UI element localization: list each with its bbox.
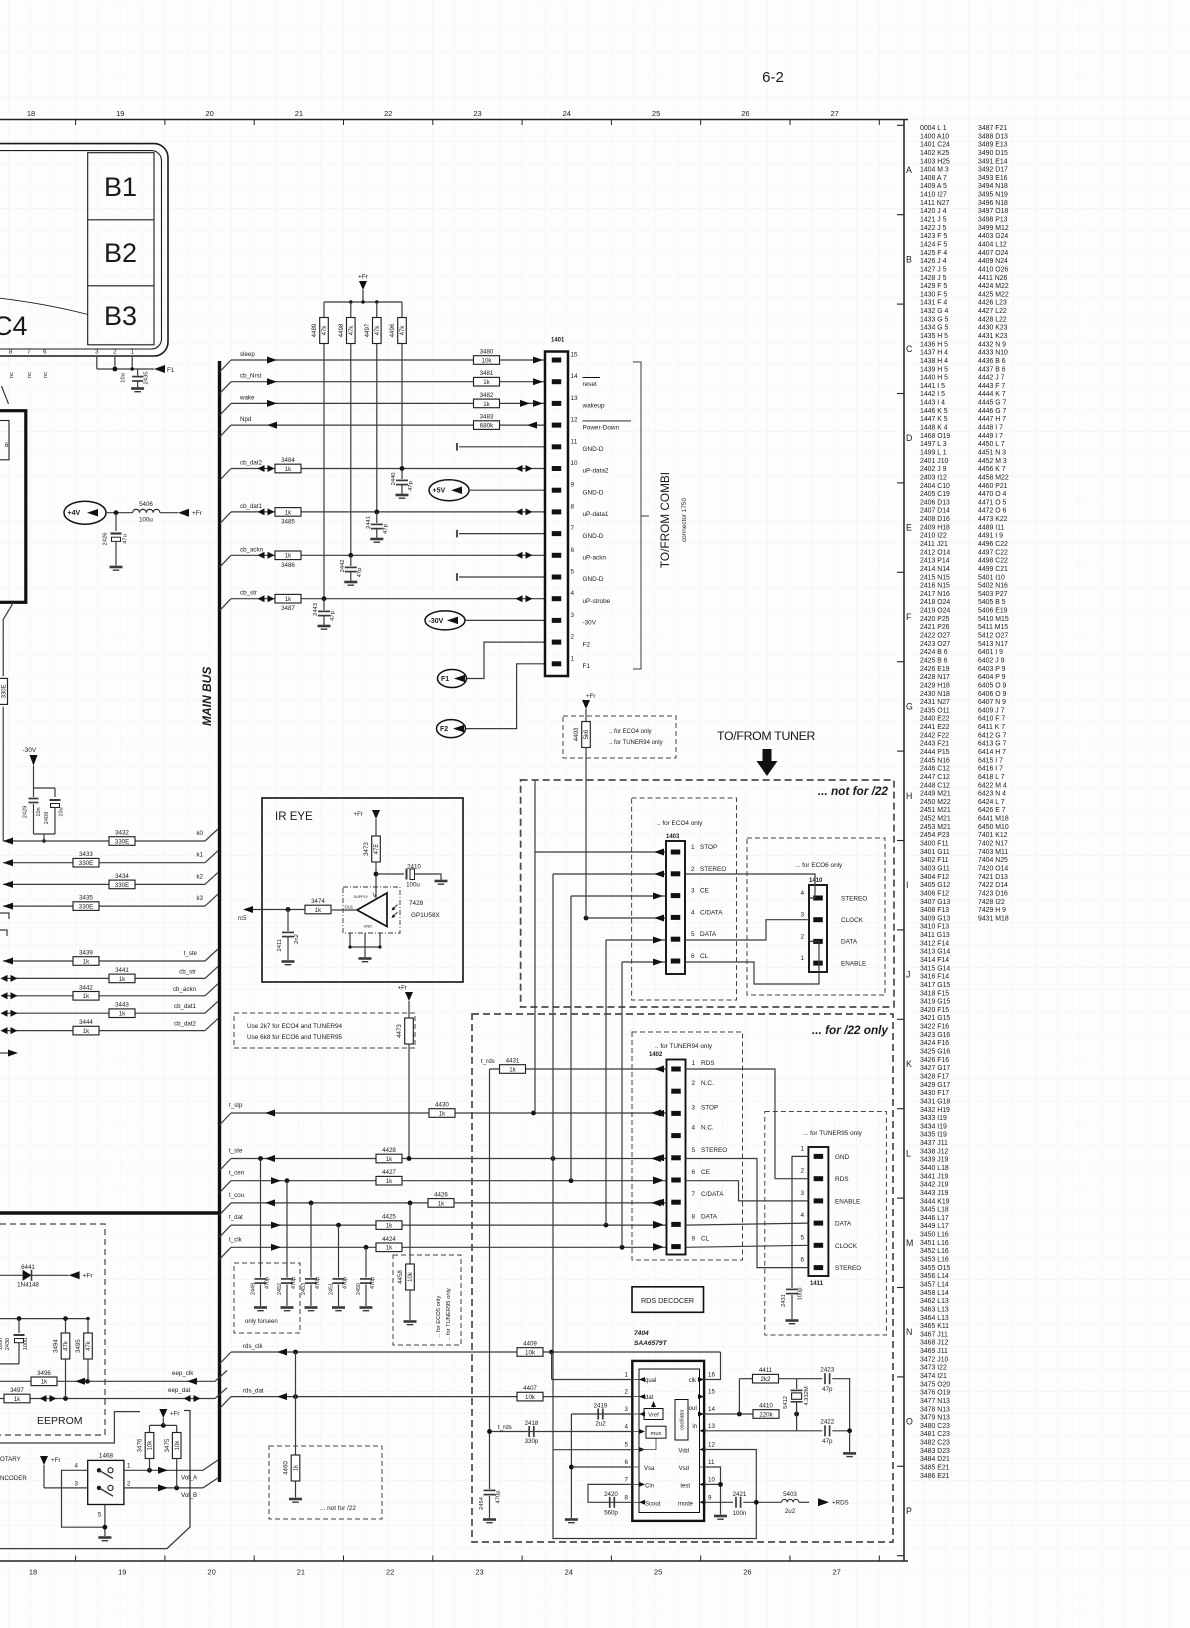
svg-text:7: 7 — [692, 1191, 696, 1198]
svg-text:C: C — [906, 344, 913, 354]
svg-text:3: 3 — [691, 888, 695, 895]
svg-text:1k: 1k — [83, 993, 90, 1000]
resistor 4427 1k — [376, 1176, 402, 1185]
k2 line — [3, 883, 205, 885]
svg-text:10u: 10u — [59, 807, 65, 816]
resistor 3442 1k — [73, 992, 99, 1001]
svg-text:out: out — [689, 1406, 698, 1412]
svg-text:3476: 3476 — [137, 1438, 144, 1452]
svg-text:Cin: Cin — [645, 1484, 654, 1490]
resistor 4407 10k — [517, 1392, 543, 1401]
svg-text:47k: 47k — [86, 1340, 92, 1351]
svg-text:GND: GND — [364, 925, 373, 929]
svg-text:F2: F2 — [440, 726, 448, 733]
svg-text:F2: F2 — [583, 641, 591, 648]
left module box — [0, 411, 26, 603]
svg-text:Vsa: Vsa — [644, 1466, 655, 1472]
svg-text:5: 5 — [625, 1442, 629, 1449]
wire +4V to junction — [106, 512, 133, 514]
svg-text:100u: 100u — [139, 517, 153, 524]
svg-text:1k: 1k — [285, 509, 292, 516]
svg-text:10n: 10n — [36, 807, 42, 816]
svg-text:STEREO: STEREO — [700, 866, 726, 873]
svg-text:EEPROM: EEPROM — [37, 1415, 83, 1427]
resistor 3435 330E — [73, 902, 99, 911]
GND-D stub pin 11 — [459, 446, 545, 448]
svg-text:t_cou: t_cou — [229, 1192, 245, 1199]
t_rds row to pin4 with capacitor 2418 330p — [490, 1431, 633, 1433]
diode 6441 1N4148 — [0, 1274, 23, 1276]
svg-text:560p: 560p — [604, 1510, 618, 1517]
svg-text:4428: 4428 — [382, 1147, 396, 1154]
svg-text:12: 12 — [571, 417, 579, 424]
svg-text:23: 23 — [475, 1568, 483, 1577]
switch contacts — [97, 1468, 101, 1472]
svg-text:3: 3 — [625, 1406, 629, 1413]
pin 4 loop wire — [62, 1470, 105, 1527]
svg-text:1402: 1402 — [649, 1052, 663, 1058]
eep_dat row — [0, 1398, 215, 1400]
overline reset — [583, 377, 601, 379]
svg-text:4: 4 — [800, 1212, 804, 1219]
svg-text:rds_clk: rds_clk — [243, 1343, 264, 1350]
svg-text:3485: 3485 — [281, 518, 295, 525]
svg-text:2: 2 — [113, 349, 117, 356]
svg-text:4: 4 — [625, 1424, 629, 1431]
capacitor 2441 47p — [376, 512, 378, 523]
svg-text:2409: 2409 — [44, 812, 50, 824]
svg-text:K: K — [906, 1059, 912, 1069]
svg-text:... for /22 only: ... for /22 only — [812, 1023, 889, 1037]
+Fr supply for 3476 3475 — [150, 1424, 177, 1426]
svg-text:1k: 1k — [285, 596, 292, 603]
svg-text:2: 2 — [692, 1080, 696, 1087]
F1 ellipse — [438, 670, 467, 688]
svg-text:cb_str: cb_str — [179, 968, 196, 975]
svg-text:N.C.: N.C. — [701, 1080, 714, 1087]
pullup rail — [324, 301, 402, 303]
svg-text:CL: CL — [701, 1236, 710, 1243]
cb_Nrst line — [220, 382, 232, 394]
svg-text:330p: 330p — [525, 1438, 539, 1445]
capacitor 2453 470p — [310, 1203, 312, 1278]
svg-text:1k: 1k — [14, 1396, 21, 1403]
svg-text:eep_clk: eep_clk — [172, 1370, 194, 1377]
svg-text:1: 1 — [625, 1372, 629, 1379]
svg-text:+Fr: +Fr — [192, 510, 203, 517]
resistor 3434 330E — [109, 880, 135, 889]
svg-text:2454: 2454 — [479, 1496, 485, 1510]
resistor 3486 1k — [275, 551, 301, 560]
svg-text:2: 2 — [625, 1389, 629, 1396]
svg-text:2449: 2449 — [251, 1283, 257, 1295]
dashed box for /22 only — [472, 1014, 893, 1542]
svg-text:cb_dat1: cb_dat1 — [174, 1003, 197, 1010]
svg-text:wakeup: wakeup — [582, 403, 605, 410]
svg-text:Vref: Vref — [648, 1413, 659, 1419]
switch 1468 box — [88, 1460, 124, 1504]
svg-text:mux: mux — [651, 1431, 662, 1437]
connector 1401 body — [545, 352, 568, 677]
svg-text:47p: 47p — [383, 524, 389, 534]
svg-text:2420: 2420 — [604, 1491, 618, 1498]
svg-text:1k: 1k — [285, 553, 292, 560]
svg-text:3481: 3481 — [480, 370, 494, 377]
opamp pins to ground — [349, 933, 351, 947]
svg-text:6: 6 — [625, 1459, 629, 1466]
Vdd loop wire — [553, 1450, 756, 1539]
svg-text:470p: 470p — [370, 1277, 376, 1289]
svg-text:8: 8 — [625, 1494, 629, 1501]
cb_dat1 line — [220, 512, 232, 524]
svg-text:5k6: 5k6 — [584, 729, 590, 739]
svg-text:12: 12 — [708, 1442, 715, 1449]
svg-text:rc5: rc5 — [238, 915, 247, 922]
resistor 3496 1k — [31, 1377, 57, 1386]
top ruler line — [0, 119, 908, 121]
svg-text:1k: 1k — [509, 1066, 516, 1073]
svg-text:10: 10 — [708, 1476, 715, 1483]
svg-text:10k: 10k — [525, 1349, 536, 1356]
svg-text:.. for ECO5 only: .. for ECO5 only — [436, 1296, 442, 1337]
svg-text:O: O — [906, 1417, 913, 1427]
svg-text:18: 18 — [27, 109, 35, 118]
wires 1403 to 1410 — [685, 874, 815, 898]
cell grid for B1 B2 B3 — [88, 153, 154, 345]
resistor 3432 330E — [109, 837, 135, 846]
resistor 3481 1k — [474, 377, 500, 386]
svg-text:1k: 1k — [439, 1110, 446, 1117]
svg-text:47p: 47p — [822, 1386, 833, 1393]
cb_dat2 row left — [3, 1030, 205, 1032]
resistor 3441 1k — [109, 974, 135, 983]
svg-text:4426: 4426 — [434, 1191, 448, 1198]
svg-text:4: 4 — [75, 1463, 79, 1470]
svg-text:1: 1 — [800, 1145, 804, 1152]
svg-text:CLOCK: CLOCK — [841, 917, 864, 924]
svg-text:C/DATA: C/DATA — [700, 909, 723, 916]
pin5 wire to loop — [553, 1449, 632, 1451]
connector 1403 body — [666, 841, 685, 974]
svg-text:25: 25 — [654, 1568, 662, 1577]
wire t_ste to STEREO 1411 — [686, 1159, 809, 1268]
svg-text:7: 7 — [571, 525, 575, 532]
wire t_cen to ENABLE 1411 — [686, 1181, 808, 1201]
svg-text:1k: 1k — [83, 958, 90, 965]
svg-text:1: 1 — [691, 844, 695, 851]
cb_dat2 line — [220, 469, 232, 481]
resistor 4425 1k — [376, 1221, 402, 1230]
+Fr supply for rotary — [40, 1456, 48, 1465]
mode pin9 wire capacitor 2421 100n — [704, 1501, 733, 1503]
svg-text:47p: 47p — [330, 611, 336, 621]
resistor 3482 1k — [474, 399, 500, 408]
svg-text:STEREO: STEREO — [841, 895, 867, 902]
svg-text:19: 19 — [118, 1568, 126, 1577]
svg-text:9: 9 — [708, 1494, 712, 1501]
svg-text:19: 19 — [116, 109, 124, 118]
note box Use 2k7 for ECO4 — [234, 1013, 415, 1048]
dashed box for TUNER94 only — [632, 1032, 743, 1260]
resistor 4460 1k not for /22 — [291, 1455, 300, 1481]
svg-text:10u: 10u — [121, 373, 127, 383]
svg-text:4: 4 — [692, 1125, 696, 1132]
svg-text:11: 11 — [571, 438, 578, 445]
svg-text:2435: 2435 — [144, 372, 150, 385]
svg-text:B: B — [906, 254, 912, 264]
svg-text:3495: 3495 — [75, 1339, 82, 1353]
svg-text:3444: 3444 — [79, 1019, 93, 1026]
only forseen dashed box — [234, 1263, 300, 1333]
svg-text:3: 3 — [75, 1481, 79, 1488]
pull-up rail in EEPROM — [0, 1318, 88, 1320]
svg-text:4.332M: 4.332M — [804, 1386, 810, 1406]
svg-text:4: 4 — [691, 909, 695, 916]
+RDS supply arrow — [818, 1498, 829, 1506]
wire qual pin1 — [551, 1352, 553, 1380]
svg-text:47u: 47u — [123, 534, 129, 544]
svg-text:GND-D: GND-D — [583, 489, 604, 496]
svg-text:nc: nc — [43, 372, 49, 378]
svg-text:+Fr: +Fr — [170, 1411, 179, 1418]
Cin Scout loop with capacitor 2420 560p — [588, 1484, 632, 1502]
svg-text:6: 6 — [571, 547, 575, 554]
overline Power-Down — [583, 420, 632, 422]
svg-text:qual: qual — [645, 1378, 656, 1384]
svg-text:1k: 1k — [294, 1464, 300, 1471]
wire pins 3-2-1 to F1 and cap 2435 — [96, 356, 98, 369]
svg-text:3: 3 — [692, 1104, 696, 1111]
svg-text:100n: 100n — [0, 1338, 4, 1350]
k1 line — [3, 862, 205, 864]
svg-text:3483: 3483 — [480, 414, 494, 421]
cb_ackn line — [220, 555, 232, 567]
svg-text:1k: 1k — [119, 976, 126, 983]
IC 7404 outer box — [632, 1361, 704, 1521]
svg-text:1k: 1k — [315, 907, 322, 914]
bracket wire bottom left — [0, 1411, 190, 1549]
svg-text:cb_str: cb_str — [240, 590, 257, 597]
clk wire to rds_clk — [704, 1352, 720, 1380]
svg-text:uP-ackn: uP-ackn — [583, 555, 607, 562]
svg-text:1k: 1k — [386, 1178, 393, 1185]
svg-text:oscillator: oscillator — [680, 1409, 686, 1430]
dashed box for TUNER95 only — [765, 1112, 887, 1336]
svg-text:nc: nc — [9, 372, 15, 378]
svg-text:.. for TUNER94 only: .. for TUNER94 only — [609, 740, 663, 746]
svg-text:cb_Nrst: cb_Nrst — [240, 373, 262, 380]
capacitor 2443 47p — [323, 599, 325, 610]
svg-text:22: 22 — [384, 109, 392, 118]
svg-text:-30V: -30V — [23, 747, 37, 754]
resistor 4428 1k — [376, 1154, 402, 1163]
resistor 3473 47E — [372, 836, 381, 862]
right border line — [903, 120, 905, 1562]
svg-text:SUPPLY: SUPPLY — [354, 895, 369, 899]
svg-text:3487 F21 3488 D13 3489 E13 349: 3487 F21 3488 D13 3489 E13 3490 D15 3491… — [978, 125, 1011, 922]
svg-text:3434: 3434 — [115, 873, 129, 880]
svg-text:3480: 3480 — [480, 349, 494, 356]
svg-text:2443: 2443 — [313, 603, 319, 616]
pin 5 to ground — [104, 1505, 106, 1537]
svg-text:4424: 4424 — [382, 1236, 396, 1243]
svg-text:IR EYE: IR EYE — [275, 811, 313, 823]
svg-text:2429: 2429 — [23, 806, 29, 818]
svg-text:1: 1 — [800, 955, 804, 962]
svg-text:470p: 470p — [315, 1277, 321, 1289]
svg-text:SAA6579T: SAA6579T — [634, 1340, 668, 1347]
connector 1411 body — [808, 1147, 828, 1276]
svg-text:DATA: DATA — [841, 939, 858, 946]
svg-text:OTARY: OTARY — [0, 1456, 21, 1463]
dashed box not for /22 — [521, 780, 894, 1007]
svg-text:1k: 1k — [41, 1379, 48, 1386]
svg-text:1N4148: 1N4148 — [17, 1282, 39, 1289]
svg-text:3496: 3496 — [37, 1370, 51, 1377]
svg-text:4427: 4427 — [382, 1169, 396, 1176]
svg-text:3473: 3473 — [363, 842, 370, 856]
svg-text:14: 14 — [708, 1406, 715, 1413]
resistor 3475 10k — [176, 1425, 178, 1433]
capacitor 2419 2u2 on Vref pin3 — [571, 1413, 632, 1415]
IR EYE box — [262, 798, 463, 982]
svg-text:25: 25 — [652, 109, 660, 118]
svg-text:1: 1 — [692, 1060, 696, 1067]
arrows into 1402 — [654, 1110, 664, 1117]
svg-text:4: 4 — [571, 590, 575, 597]
svg-text:+Fr: +Fr — [358, 274, 369, 281]
svg-text:GP1U58X: GP1U58X — [411, 912, 441, 919]
svg-text:2426: 2426 — [103, 533, 109, 546]
svg-text:CL: CL — [700, 953, 709, 960]
svg-text:20: 20 — [205, 109, 213, 118]
svg-text:ENABLE: ENABLE — [835, 1198, 860, 1205]
svg-text:47p: 47p — [822, 1438, 833, 1445]
capacitor 2440 47p — [401, 469, 403, 480]
cb_str row left — [3, 977, 205, 979]
svg-text:3475: 3475 — [164, 1438, 171, 1452]
svg-text:23: 23 — [473, 109, 481, 118]
bottom ruler line — [0, 1560, 908, 1562]
F2 ellipse — [437, 720, 466, 738]
out pin14 wire — [704, 1413, 753, 1415]
svg-text:STEREO: STEREO — [835, 1265, 861, 1272]
svg-text:RDS: RDS — [835, 1176, 849, 1183]
svg-text:P: P — [906, 1506, 912, 1516]
svg-text:Vol_B: Vol_B — [181, 1492, 197, 1499]
RDS DECODER box — [632, 1287, 704, 1313]
svg-text:D: D — [906, 433, 912, 443]
GND 1411 to capacitor 2431 100p — [792, 1156, 808, 1288]
capacitor 2430 100u 100n — [18, 1319, 20, 1333]
svg-text:2: 2 — [127, 1481, 131, 1488]
svg-text:NCODER: NCODER — [0, 1475, 27, 1482]
svg-text:TO/FROM COMBI: TO/FROM COMBI — [658, 472, 672, 568]
wake line — [220, 403, 232, 415]
svg-text:100n: 100n — [733, 1510, 747, 1517]
svg-text:4489: 4489 — [311, 323, 318, 337]
resistor 4458 10k — [409, 1203, 411, 1264]
svg-text:21: 21 — [295, 109, 303, 118]
wire below EEPROM — [0, 1412, 140, 1443]
svg-text:10k: 10k — [148, 1440, 154, 1451]
svg-text:t_rds: t_rds — [498, 1424, 512, 1431]
MAIN BUS thick horizontal line — [0, 1211, 220, 1214]
svg-text:4411: 4411 — [759, 1367, 773, 1374]
svg-text:470p: 470p — [265, 1277, 271, 1289]
connector box B1 B2 B3 outer frame — [0, 144, 168, 356]
svg-text:2419: 2419 — [594, 1403, 608, 1410]
capacitor 2411 2n2 — [287, 910, 289, 932]
svg-text:16: 16 — [708, 1372, 715, 1379]
svg-text:4497: 4497 — [364, 323, 371, 337]
svg-text:2418: 2418 — [525, 1420, 539, 1427]
svg-text:7: 7 — [625, 1476, 629, 1483]
svg-text:4407: 4407 — [523, 1385, 537, 1392]
svg-text:6-2: 6-2 — [762, 69, 784, 86]
svg-text:eep_dat: eep_dat — [168, 1387, 191, 1394]
svg-text:4473: 4473 — [396, 1024, 403, 1038]
svg-text:2451: 2451 — [329, 1283, 335, 1295]
svg-text:5: 5 — [800, 1234, 804, 1241]
t_stp row — [220, 1113, 232, 1125]
svg-text:G: G — [906, 701, 913, 711]
opamp V pin wire — [375, 887, 377, 900]
svg-text:... not for /22: ... not for /22 — [818, 784, 889, 798]
svg-text:cb_dat2: cb_dat2 — [174, 1021, 197, 1028]
cb_dat1 row left — [3, 1012, 205, 1014]
svg-text:0004 L 1 1400 A10 1401 C24 140: 0004 L 1 1400 A10 1401 C24 1402 K25 1403… — [920, 125, 953, 1480]
wire from box to left module — [2, 386, 9, 404]
F2 pin wire to F1 ellipse — [466, 642, 545, 678]
svg-text:9: 9 — [692, 1236, 696, 1243]
svg-text:1411: 1411 — [810, 1281, 824, 1287]
resistor 4424 1k — [376, 1243, 402, 1252]
svg-text:2442: 2442 — [340, 560, 346, 573]
svg-text:680k: 680k — [480, 423, 494, 430]
svg-text:3486: 3486 — [281, 562, 295, 569]
svg-text:10k: 10k — [525, 1394, 536, 1401]
dashed box for ECO4 only — [632, 798, 737, 1000]
resistor 3476 10k — [149, 1425, 151, 1433]
pin 3 wire — [44, 1487, 88, 1489]
svg-text:N.C.: N.C. — [701, 1125, 714, 1132]
t_cen row — [220, 1181, 232, 1193]
Vol_B line — [124, 1487, 203, 1489]
svg-text:2: 2 — [571, 634, 575, 641]
svg-text:2n2: 2n2 — [294, 934, 300, 944]
+Fr arrow for 6441 — [69, 1271, 80, 1279]
resistor 3480 10k — [474, 356, 500, 365]
svg-text:STEREO: STEREO — [701, 1147, 727, 1154]
svg-text:330E: 330E — [79, 860, 93, 867]
svg-text:47p: 47p — [357, 568, 363, 578]
svg-text:3494: 3494 — [53, 1339, 60, 1353]
svg-text:DATA: DATA — [835, 1221, 852, 1228]
svg-text:Use 2k7 for ECO4 and TUNER94: Use 2k7 for ECO4 and TUNER94 — [247, 1023, 343, 1030]
svg-text:47k: 47k — [349, 325, 355, 336]
svg-text:2: 2 — [691, 866, 695, 873]
svg-text:TO/FROM TUNER: TO/FROM TUNER — [717, 729, 816, 743]
svg-text:47k: 47k — [375, 325, 381, 336]
svg-text:2u2: 2u2 — [595, 1421, 606, 1428]
pin5 internal wire to mux — [640, 1438, 656, 1449]
capacitor 2442 47p — [350, 555, 352, 566]
svg-text:21: 21 — [297, 1568, 305, 1577]
capacitor 2450 470p — [365, 1247, 367, 1277]
svg-text:15: 15 — [708, 1389, 715, 1396]
svg-text:Npd: Npd — [240, 416, 252, 423]
